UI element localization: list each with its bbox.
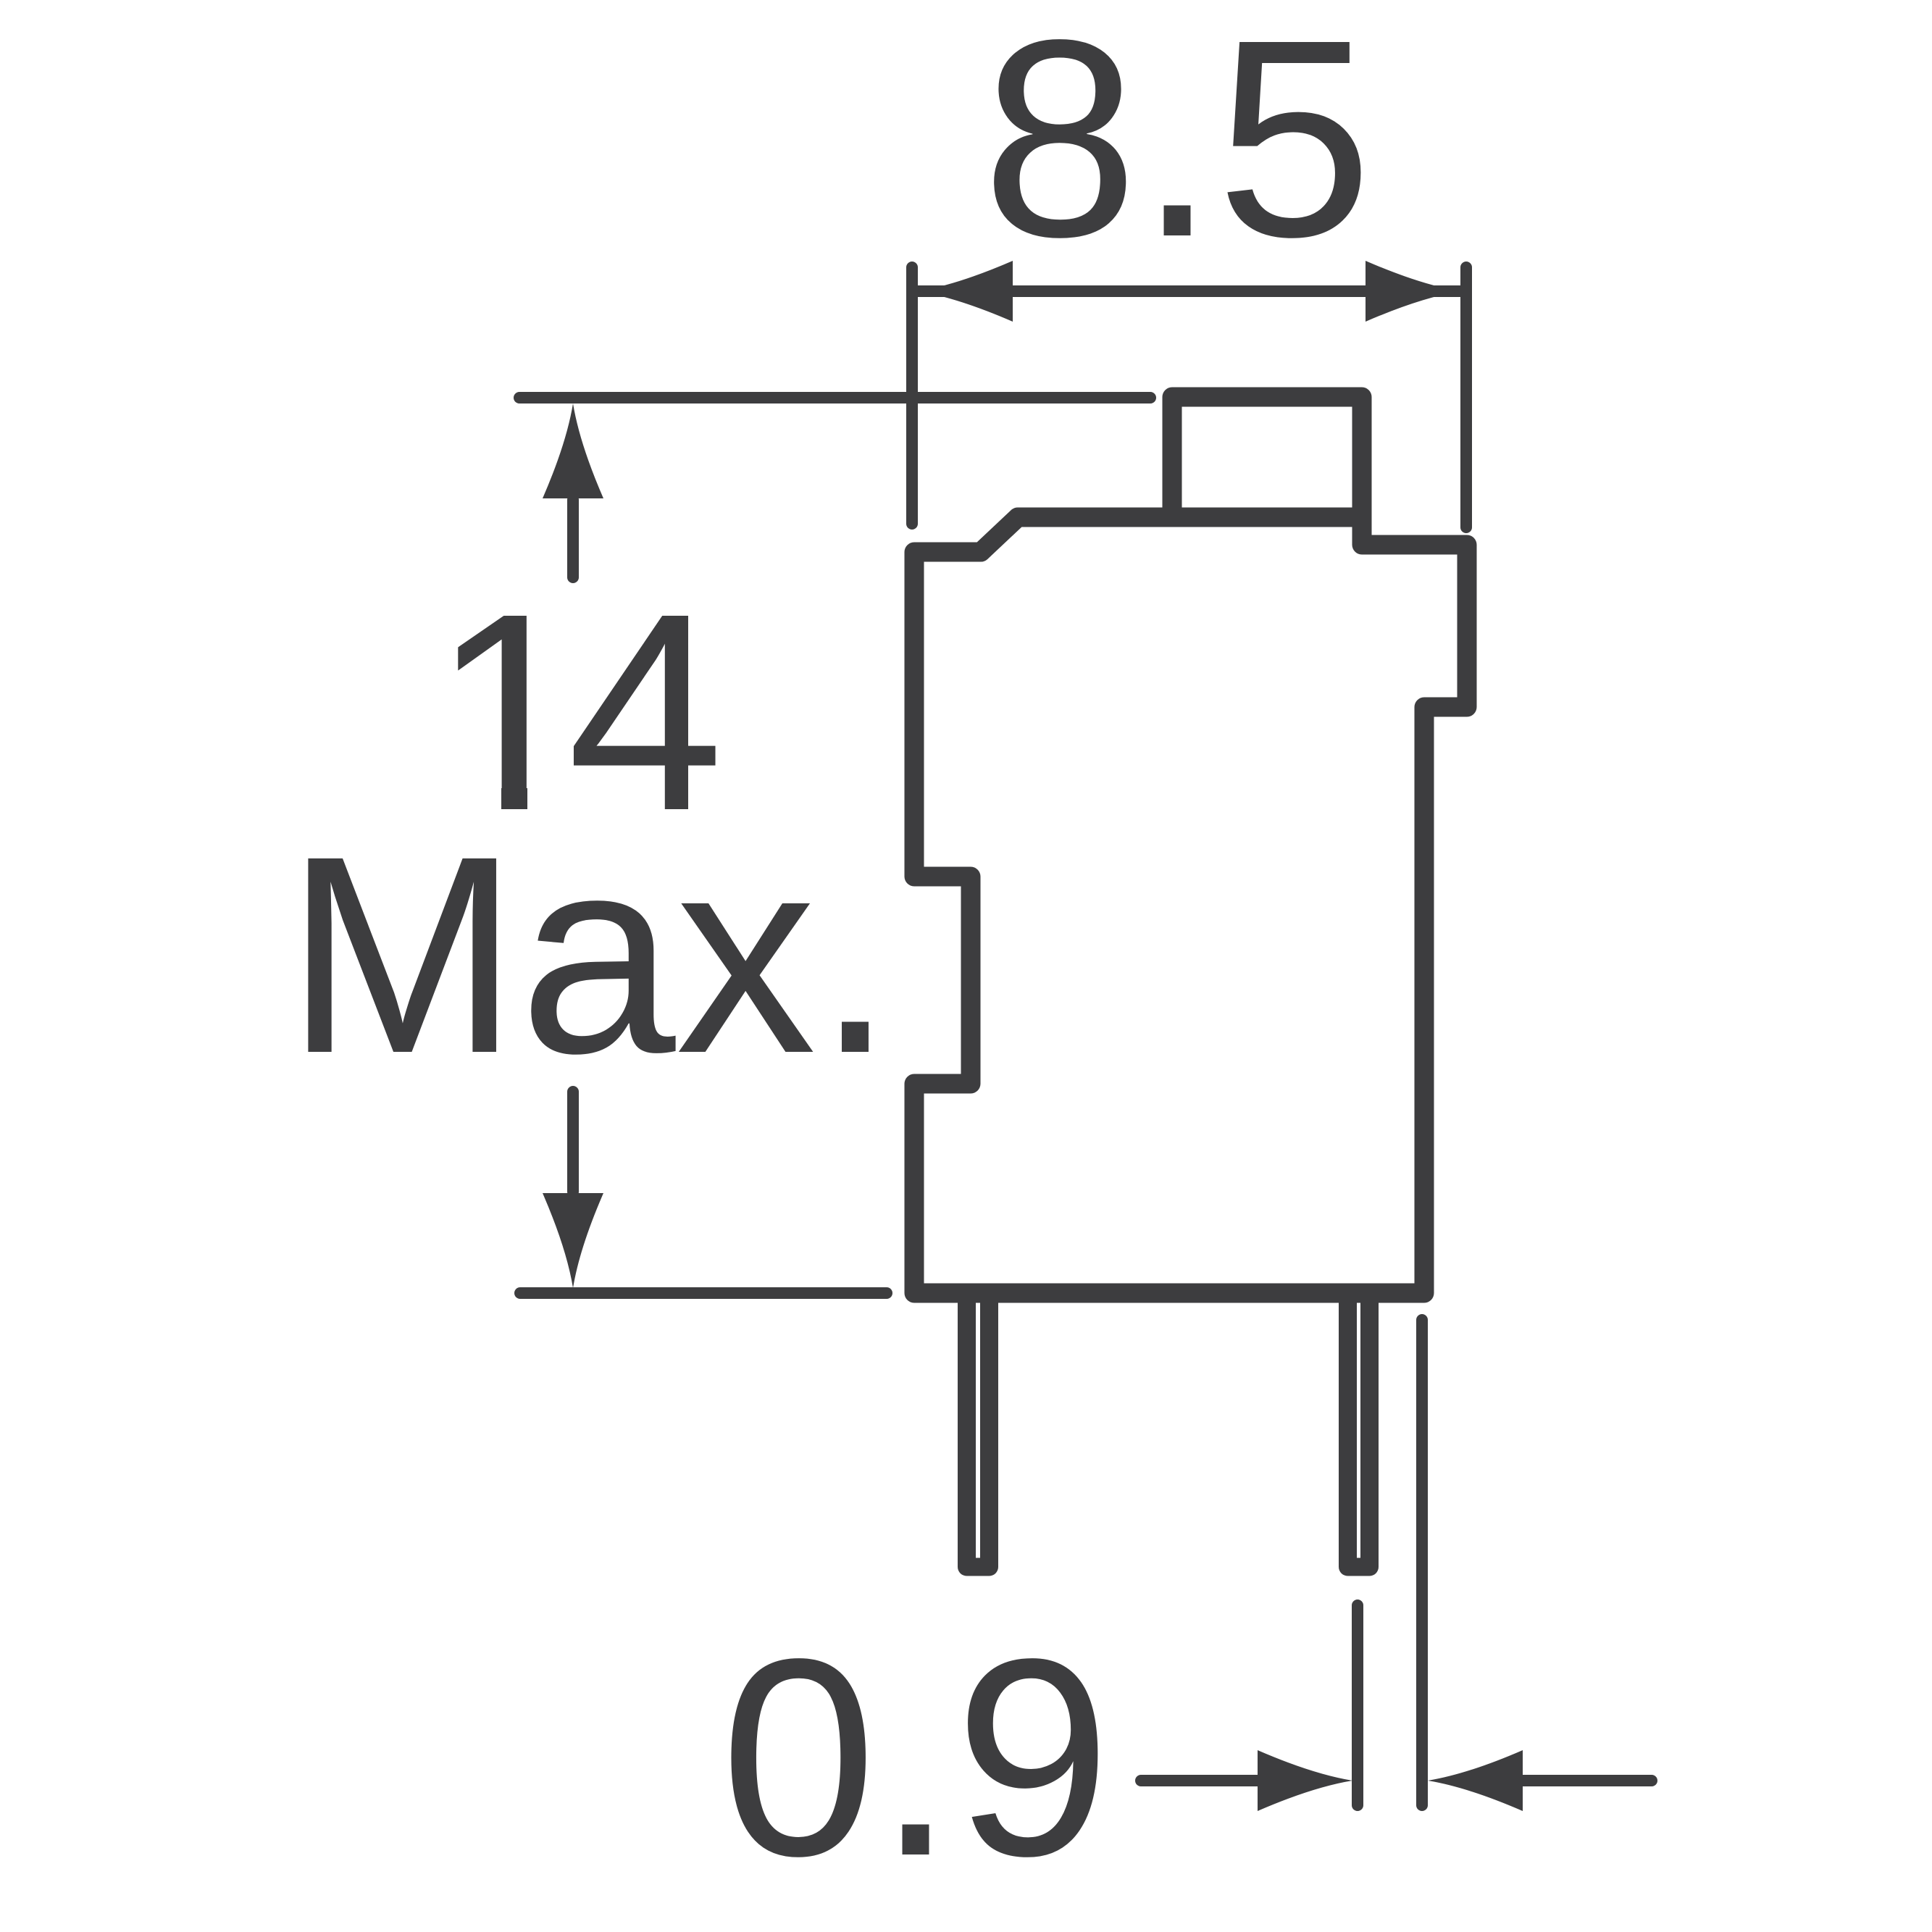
svg-text:Max.: Max. bbox=[285, 798, 895, 1112]
pin 1 (left lead) bbox=[967, 1293, 990, 1567]
arrow down of 14 Max. dimension bbox=[567, 1092, 579, 1192]
extension line right of 8.5 width dimension bbox=[1460, 267, 1472, 527]
extension line left of 0.9 lead dimension bbox=[1352, 1605, 1363, 1805]
svg-text:0.9: 0.9 bbox=[720, 1601, 1111, 1915]
arrowhead right of 8.5 dimension bbox=[1366, 261, 1460, 322]
dimension line 8.5 bbox=[918, 285, 1460, 297]
extension line bottom of 14 Max. height dimension bbox=[520, 1287, 887, 1299]
extension line right of 0.9 lead dimension bbox=[1416, 1320, 1428, 1805]
adjuster tab on top of body bbox=[1172, 397, 1362, 519]
component body outline (side view) bbox=[914, 517, 1467, 1293]
pin 2 (right lead) bbox=[1348, 1293, 1370, 1567]
extension line left of 8.5 width dimension bbox=[906, 267, 918, 524]
arrowhead left of 8.5 dimension bbox=[918, 261, 1013, 322]
arrow up of 14 Max. dimension bbox=[567, 500, 579, 577]
extension line top of 14 Max. height dimension bbox=[519, 392, 1150, 403]
svg-text:8.5: 8.5 bbox=[982, 0, 1372, 296]
arrow left of 0.9 dimension pointing right bbox=[1141, 1775, 1260, 1786]
arrow right of 0.9 dimension pointing left bbox=[1521, 1775, 1652, 1786]
